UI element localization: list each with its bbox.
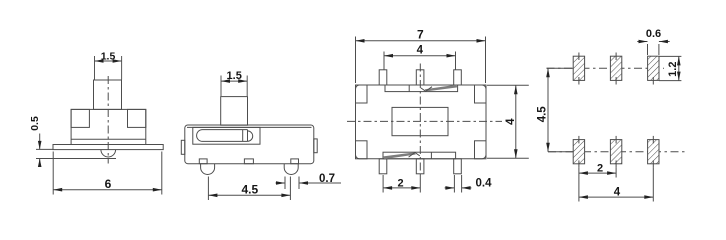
svg-text:2: 2: [597, 163, 603, 175]
dim 1.5 (view1) extension lines: [94, 56, 96, 80]
flange: [53, 145, 163, 150]
svg-text:4.5: 4.5: [241, 183, 258, 197]
center pin semicircle: [101, 150, 116, 157]
body seam line: [71, 138, 146, 140]
central rect: [392, 107, 448, 135]
svg-text:1.5: 1.5: [227, 70, 242, 82]
bottom wiper band: [383, 152, 416, 159]
svg-text:0.6: 0.6: [646, 28, 661, 40]
bottom wiper tip: [409, 153, 420, 158]
svg-text:1.5: 1.5: [101, 51, 116, 63]
dim 4.5 (view4) dimension line: [547, 68, 549, 151]
body: [356, 85, 487, 159]
dim 4 top dimension line: [384, 55, 456, 57]
dim 1.5 (view1) dimension line: [95, 60, 122, 62]
dim 4.5 extension lines: [207, 177, 209, 201]
dim 4 (view4) extension line: [652, 168, 654, 202]
top wiper band: [425, 85, 458, 92]
right tab: [314, 139, 317, 153]
dim 2 (view4) extension lines: [578, 168, 580, 202]
slider bullet: [248, 131, 253, 141]
svg-text:0.7: 0.7: [319, 173, 335, 185]
dim 0.7 arrows + leader: [276, 182, 286, 184]
dim 4.5 dimension line: [208, 194, 290, 196]
dim 0.7 extension lines: [284, 177, 286, 190]
left foot: [201, 164, 215, 175]
body: [185, 125, 314, 164]
dim 1.2 extension lines: [659, 55, 681, 57]
knob: [221, 97, 248, 126]
dim 2 (view4) dimension line: [579, 172, 616, 174]
dim 0.4 extension lines: [453, 175, 455, 193]
svg-text:4: 4: [417, 45, 424, 57]
dim 6 dimension line: [53, 189, 162, 191]
right notch: [128, 109, 146, 127]
corner block TL: [356, 85, 368, 103]
svg-text:7: 7: [417, 28, 424, 42]
centerline: [107, 76, 109, 164]
dim 6 extension lines: [52, 152, 54, 195]
bottom pins: [379, 159, 387, 174]
dim 4 right dimension line: [515, 85, 517, 158]
svg-text:1.2: 1.2: [667, 62, 679, 77]
svg-text:4.5: 4.5: [537, 106, 549, 123]
pad center ticks: [579, 53, 653, 168]
dim 2 (view3) extension line: [382, 175, 384, 193]
top wiper tip: [421, 87, 432, 92]
bottom tray: [383, 152, 456, 159]
top tray: [385, 85, 458, 92]
dim 4 right extension lines: [487, 84, 529, 86]
centerline vertical: [419, 64, 421, 174]
centerline horizontal: [347, 120, 502, 122]
svg-text:0.4: 0.4: [476, 177, 493, 189]
dim 4 (view4) dimension line: [579, 196, 653, 198]
right foot: [284, 164, 298, 175]
top band line: [187, 126, 312, 128]
dim 1.2 dimension line: [678, 56, 680, 80]
svg-text:0.5: 0.5: [29, 116, 41, 131]
dim 0.6 arrows: [637, 41, 647, 43]
dim 7 dimension line: [356, 40, 486, 42]
svg-text:6: 6: [105, 177, 112, 191]
dim 1.5 (view2) extension lines: [220, 76, 222, 97]
left tab: [181, 140, 185, 154]
pin shoulders: [199, 159, 207, 164]
left notch: [71, 109, 89, 127]
corner block BL: [356, 141, 368, 159]
dim 0.5 extension lines: [36, 148, 53, 150]
body: [71, 109, 146, 144]
slot inner rounded: [197, 130, 248, 142]
dim 7 extension lines: [355, 37, 357, 84]
pads: [573, 56, 659, 164]
dim 4 top extension lines: [383, 52, 385, 70]
slider verticals: [242, 130, 244, 142]
row centerline top: [547, 67, 665, 69]
row centerline bottom: [548, 151, 686, 153]
corner block TR: [475, 85, 487, 103]
top pins: [379, 70, 387, 85]
dim 0.5 dimension line + arrows: [39, 134, 41, 150]
dim 1.5 (view2) dimension line: [221, 80, 247, 82]
svg-text:2: 2: [397, 177, 403, 189]
dim 0.4 arrows: [445, 187, 455, 189]
dim 0.6 extension lines: [647, 44, 649, 55]
corner block BR: [475, 141, 487, 159]
dim 2 (view3) dimension line: [383, 187, 420, 189]
svg-text:4: 4: [505, 118, 517, 125]
slot outer: [193, 127, 260, 144]
svg-text:4: 4: [614, 187, 621, 199]
knob: [94, 80, 122, 109]
